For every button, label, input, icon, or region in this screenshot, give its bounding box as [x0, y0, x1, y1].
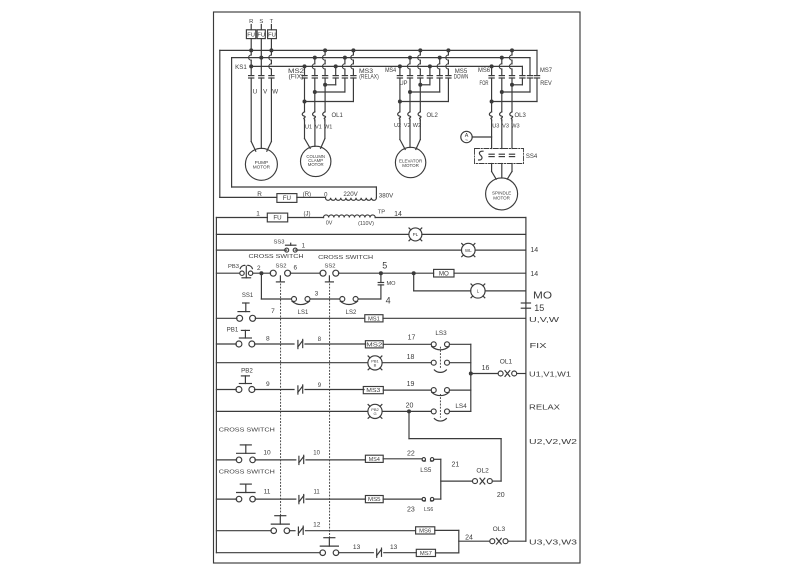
svg-text:SS1: SS1: [242, 293, 254, 299]
push button PB2: [236, 387, 242, 393]
wire MS4 to LS5: [383, 458, 422, 460]
spindle motor M4: [486, 178, 518, 210]
elevator motor M3: [395, 147, 425, 177]
svg-text:SS3: SS3: [274, 240, 285, 246]
contactor MS6 (FOR) poles: [491, 66, 493, 75]
wire node20 down-right: [408, 411, 410, 438]
limit switch LS4 pole2: [431, 409, 436, 414]
wire pump W: [270, 78, 272, 142]
wire NC to MS4: [306, 459, 366, 461]
svg-text:G: G: [373, 411, 376, 416]
svg-text:MS6: MS6: [419, 528, 431, 534]
svg-text:OL3: OL3: [493, 526, 506, 533]
lamp WL: [462, 243, 476, 257]
svg-text:U2,V2,W2: U2,V2,W2: [529, 439, 577, 446]
svg-text:6: 6: [294, 264, 298, 271]
svg-text:MO: MO: [387, 281, 397, 287]
pump motor M1: [245, 148, 277, 180]
svg-text:LS3: LS3: [435, 330, 447, 337]
svg-text:B: B: [374, 362, 377, 367]
svg-text:LS1: LS1: [298, 310, 309, 316]
coil MS2 box: [365, 341, 383, 348]
svg-text:CROSS SWITCH: CROSS SWITCH: [219, 469, 275, 475]
svg-text:10: 10: [263, 449, 271, 456]
svg-text:0: 0: [324, 193, 328, 199]
rung 18: wire: [216, 362, 368, 364]
NC contact MS3 interlock (8): [297, 340, 299, 348]
wire MS1 to right rail: [383, 317, 526, 319]
svg-text:5: 5: [382, 261, 387, 271]
svg-text:8: 8: [318, 337, 322, 343]
svg-text:MOTOR: MOTOR: [493, 195, 510, 200]
wire SS1 to MS1: [255, 317, 364, 319]
svg-text:MS4: MS4: [369, 457, 381, 463]
NC contact (10): [298, 456, 300, 464]
svg-text:SS4: SS4: [526, 154, 538, 160]
svg-text:CROSS SWITCH: CROSS SWITCH: [219, 427, 275, 433]
svg-text:7: 7: [271, 308, 275, 315]
bus T (lower horizontal bus): [251, 65, 522, 67]
wire fuse to winding: [297, 196, 326, 198]
wire MS6 to vert: [435, 529, 459, 531]
svg-text:3: 3: [315, 290, 319, 297]
rung LS1/LS2: wire: [261, 298, 291, 300]
svg-text:LS2: LS2: [346, 310, 357, 316]
svg-text:380V: 380V: [379, 193, 394, 200]
drawing border frame: [214, 12, 581, 563]
svg-text:W: W: [272, 89, 278, 96]
wire SS2b to node 5: [339, 272, 434, 274]
bus S drop to 380V tap: [231, 58, 233, 187]
svg-text:14: 14: [530, 271, 538, 278]
svg-text:4: 4: [386, 295, 391, 305]
wire pump V: [260, 78, 262, 148]
rung MO: left wire: [216, 272, 239, 274]
coil MS6 box: [416, 527, 435, 534]
svg-text:OL1: OL1: [500, 359, 513, 366]
rung MS7: left wire: [216, 552, 320, 554]
svg-text:MO: MO: [439, 270, 449, 277]
wire to lamp L: [413, 273, 415, 291]
right vertical LS3-LS4: [470, 344, 472, 411]
wire OL2 to vert: [492, 480, 501, 482]
wire NC to MS6: [306, 530, 416, 532]
svg-text:FU: FU: [257, 32, 265, 38]
svg-text:RELAX: RELAX: [529, 404, 560, 411]
wire NC to MS7: [384, 552, 417, 554]
bus R (top horizontal bus): [220, 49, 537, 51]
svg-text:U: U: [253, 89, 257, 96]
svg-text:FU: FU: [247, 32, 255, 38]
svg-text:MS2: MS2: [366, 342, 382, 348]
overload OL2 heaters: [398, 112, 401, 121]
switch SS1: [237, 315, 243, 321]
svg-text:0V: 0V: [326, 221, 333, 227]
svg-text:220V: 220V: [343, 191, 358, 198]
contact OL2: [473, 479, 478, 484]
KS1 pole T wire: [270, 39, 272, 55]
cross switch link (SS2a chain): [280, 284, 282, 516]
wire 14 to right rail: [375, 217, 526, 219]
wire OL3 to rail: [508, 540, 526, 542]
svg-text:U1,V1,W1: U1,V1,W1: [529, 372, 571, 379]
coil MS4 box: [365, 455, 383, 462]
phase S lead-in wire: [260, 25, 262, 30]
wire vert to OL3: [459, 540, 490, 542]
svg-text:REV: REV: [540, 80, 552, 87]
limit switch LS6: [422, 497, 425, 500]
cross switch link (SS2b chain): [329, 284, 331, 538]
vertical LS5-LS6: [440, 459, 442, 499]
primary winding 0-220V-380V: [326, 198, 377, 201]
cross switch SS2b: [320, 270, 326, 276]
svg-text:PL: PL: [413, 232, 419, 237]
wire MS3 to LS4: [383, 389, 431, 391]
coil MS3 box: [363, 387, 383, 394]
wire PB1 to NC: [255, 343, 295, 345]
svg-text:FIX: FIX: [530, 343, 548, 350]
svg-text:MS1: MS1: [368, 316, 380, 322]
bus S (middle horizontal bus): [232, 57, 530, 59]
svg-text:8: 8: [266, 335, 270, 342]
svg-text:KS1: KS1: [235, 64, 247, 71]
push button PB3: [240, 271, 244, 275]
node 20 junction: [407, 409, 411, 413]
wire LS6 to vert: [434, 498, 441, 500]
node bus2-S: [259, 56, 263, 60]
svg-text:13: 13: [353, 544, 361, 551]
limit switch LS4 pole1: [431, 388, 436, 393]
MS6/MS7 reversing cross links: [521, 78, 523, 85]
rung MS2: left wire: [216, 343, 236, 345]
switch SS3: [285, 248, 289, 252]
MS2/MS3 reversing cross links: [335, 78, 337, 85]
rung MS5: left wire: [216, 498, 236, 500]
svg-text:TP: TP: [378, 209, 386, 215]
node bus1-R: [249, 48, 253, 52]
wires into SS4: [491, 121, 493, 149]
svg-text:(FIX): (FIX): [289, 74, 304, 81]
cross switch SS2a: [270, 270, 276, 276]
phase T lead-in wire: [270, 25, 272, 30]
svg-text:2: 2: [257, 265, 261, 272]
LS3 mechanical link: [439, 347, 441, 368]
vertical MS6-MS7: [458, 530, 460, 552]
node L-branch junction: [412, 271, 416, 275]
contact MO on right rail: [521, 302, 530, 304]
lamp PB1-B: [368, 356, 382, 370]
rung MS1: left wire: [216, 317, 237, 319]
svg-text:22: 22: [407, 450, 415, 457]
coil MS1 box: [365, 315, 383, 322]
svg-text:U,V,W: U,V,W: [529, 317, 560, 324]
NC contact MS2 interlock (9): [297, 386, 299, 394]
svg-text:SS2: SS2: [276, 263, 287, 269]
svg-text:V: V: [263, 89, 268, 96]
svg-text:MS7: MS7: [540, 67, 553, 74]
svg-text:12: 12: [313, 521, 321, 528]
wire NC to MS2: [305, 343, 366, 345]
contactor MS2 (FIX) poles: [304, 66, 306, 75]
contactor MS3 (RELAX) poles: [335, 66, 337, 75]
column clamp motor M2: [301, 146, 331, 176]
secondary line left: [216, 217, 267, 219]
rung PL: wire: [216, 233, 409, 235]
svg-text:U3: U3: [492, 124, 499, 130]
secondary winding 110V: [324, 215, 376, 218]
KS1 pole S wire: [260, 39, 262, 76]
svg-text:MO: MO: [533, 291, 552, 302]
cross switch contact (12): [236, 457, 242, 463]
wire to NC (11): [255, 498, 296, 500]
contact OL1: [498, 371, 503, 376]
svg-text:1: 1: [256, 210, 260, 217]
lamp L: [471, 284, 485, 298]
svg-text:OL2: OL2: [427, 113, 439, 119]
rung 20: wire: [216, 410, 368, 412]
svg-text:21: 21: [452, 461, 460, 468]
contact MO (NO): [380, 285, 382, 299]
wire NC to MS3: [305, 389, 364, 391]
svg-text:V1: V1: [315, 124, 322, 130]
svg-text:10: 10: [313, 450, 320, 456]
svg-text:17: 17: [408, 334, 416, 341]
svg-text:PB3: PB3: [228, 264, 239, 270]
svg-text:23: 23: [407, 506, 415, 513]
star-delta switch SS4 box: [475, 149, 524, 164]
node 5 junction: [379, 271, 383, 275]
svg-text:20: 20: [406, 403, 414, 410]
svg-text:18: 18: [407, 354, 415, 361]
bus R drop to transformer: [219, 50, 221, 197]
right control rail: [525, 218, 527, 542]
ammeter A: [461, 131, 472, 142]
wire PB2 to NC: [255, 389, 295, 391]
rung MS6: left wire: [216, 530, 271, 532]
KS1 contacts: [249, 75, 254, 77]
wire LS4p1 to right vert: [450, 389, 471, 391]
primary feed line R: [220, 196, 277, 198]
MS4/MS5 reversing cross links: [429, 78, 431, 85]
NC contact (13): [376, 549, 378, 557]
svg-text:FU: FU: [268, 32, 276, 38]
wires to column clamp motor: [304, 121, 306, 139]
svg-text:16: 16: [482, 365, 490, 372]
svg-text:MS6: MS6: [478, 67, 491, 74]
wire MS2 to LS3: [383, 343, 431, 345]
svg-text:(RELAX): (RELAX): [359, 74, 379, 81]
svg-text:15: 15: [534, 303, 544, 313]
wire node2 down: [260, 273, 262, 299]
svg-text:13: 13: [390, 544, 398, 551]
cross switch contact (12b): [271, 528, 277, 534]
svg-text:MS5: MS5: [368, 497, 381, 503]
svg-text:R: R: [257, 191, 262, 198]
phase R lead-in wire: [250, 25, 252, 30]
svg-text:14: 14: [530, 247, 538, 254]
svg-text:MS7: MS7: [420, 551, 432, 557]
svg-text:9: 9: [266, 381, 270, 388]
wire MS7 to vert: [436, 552, 459, 554]
fuse FU (T): [268, 30, 277, 39]
rung WL: wire: [216, 249, 286, 251]
svg-text:WL: WL: [465, 248, 472, 253]
svg-text:19: 19: [407, 381, 415, 388]
wire to NC (10): [255, 459, 296, 461]
svg-text:20: 20: [497, 492, 505, 499]
LS4 mechanical link: [439, 394, 441, 417]
wire MS5 to LS6: [383, 498, 422, 500]
cross switch contact (11): [236, 496, 242, 502]
limit switch LS3 pole1: [431, 342, 436, 347]
wire pump U: [250, 78, 252, 142]
svg-text:OL2: OL2: [476, 468, 489, 475]
coil MS7 box: [416, 549, 435, 556]
contactor MS4 (UP) poles: [399, 66, 401, 75]
svg-text:CROSS SWITCH: CROSS SWITCH: [249, 254, 304, 260]
wire MO box to right rail: [454, 272, 526, 274]
svg-text:(J): (J): [304, 211, 311, 217]
wire to NC (13): [339, 552, 374, 554]
wire to OL1: [471, 373, 498, 375]
contactor MS5 (DOWN) poles: [429, 66, 431, 75]
svg-text:(110V): (110V): [358, 221, 374, 227]
svg-text:L: L: [477, 289, 480, 294]
svg-text:LS5: LS5: [420, 467, 432, 474]
svg-text:OL1: OL1: [332, 113, 344, 119]
limit switch LS5: [422, 458, 425, 461]
push button PB1: [236, 341, 242, 347]
coil MS5 box: [365, 496, 383, 503]
svg-text:MOTOR: MOTOR: [308, 162, 324, 167]
contact OL3: [490, 539, 495, 544]
wire fuse to secondary winding: [288, 217, 324, 219]
svg-text:MOTOR: MOTOR: [253, 165, 271, 170]
NC contact (12): [289, 530, 295, 532]
coil MO box: [434, 269, 454, 277]
svg-text:U3,V3,W3: U3,V3,W3: [529, 539, 577, 546]
svg-text:OL3: OL3: [515, 113, 527, 119]
KS1 pole R wire: [250, 39, 252, 55]
svg-text:1: 1: [302, 242, 306, 249]
left control rail: [215, 218, 217, 553]
wire NC to MS5: [306, 498, 366, 500]
wires to elevator motor: [399, 121, 401, 140]
svg-text:V3: V3: [502, 124, 509, 130]
svg-text:CROSS SWITCH: CROSS SWITCH: [318, 255, 373, 261]
limit switch LS1: [292, 297, 297, 302]
rung MS4: left wire: [216, 459, 236, 461]
wire LS3 to right vert: [450, 343, 471, 345]
node 2 junction: [259, 271, 263, 275]
fuse FU (S): [257, 30, 265, 39]
svg-text:9: 9: [318, 383, 322, 389]
fuse FU (R): [246, 30, 255, 39]
svg-text:FU: FU: [273, 215, 281, 222]
svg-text:UP: UP: [400, 80, 408, 87]
lamp PB2-G: [368, 404, 382, 418]
wire OL1 to rail: [517, 373, 526, 375]
svg-text:11: 11: [313, 490, 320, 496]
fuse FU primary: [277, 194, 297, 203]
svg-text:SS2: SS2: [325, 263, 336, 269]
pilot lamp PL: [409, 228, 422, 241]
wire PB3 to SS2: [253, 272, 271, 274]
cross switch contact (13): [320, 550, 326, 556]
wire LS4p2 to right vert: [450, 410, 471, 412]
fuse FU secondary: [267, 213, 287, 222]
wire LS5 to vert: [434, 458, 441, 460]
svg-text:~: ~: [465, 138, 468, 144]
svg-text:FU: FU: [283, 195, 291, 202]
svg-text:U1: U1: [305, 124, 312, 130]
rung MS3: left wire: [216, 389, 236, 391]
svg-text:MS3: MS3: [366, 388, 380, 394]
node bus1-T: [269, 48, 273, 52]
node bus3-R: [249, 64, 253, 68]
svg-text:LS4: LS4: [455, 403, 467, 410]
wire vert to OL2: [441, 480, 473, 482]
svg-text:LS6: LS6: [424, 507, 433, 513]
wires to spindle motor: [491, 164, 493, 172]
wire LS3p2 to right vert: [450, 362, 471, 364]
contactor MS7 (REV) poles from bus ends: [521, 66, 523, 75]
overload OL1 heaters: [302, 112, 305, 121]
380V return line: [232, 186, 377, 188]
svg-text:(R): (R): [303, 192, 311, 198]
svg-text:PB1: PB1: [227, 326, 239, 333]
svg-text:14: 14: [394, 211, 402, 218]
svg-text:11: 11: [264, 489, 271, 496]
NC contact (11): [298, 496, 300, 504]
svg-text:FOR: FOR: [480, 80, 489, 87]
limit switch LS2: [340, 297, 345, 302]
svg-text:PB2: PB2: [241, 367, 253, 374]
overload OL3 heaters: [489, 112, 492, 121]
svg-text:DOWN: DOWN: [454, 74, 469, 81]
svg-text:MS4: MS4: [385, 67, 396, 74]
svg-text:24: 24: [465, 534, 473, 541]
wire SS2a to SS2b: [290, 272, 320, 274]
node OL1 feed: [469, 372, 473, 376]
limit switch LS3 pole2: [431, 360, 436, 365]
svg-text:MOTOR: MOTOR: [402, 163, 419, 168]
